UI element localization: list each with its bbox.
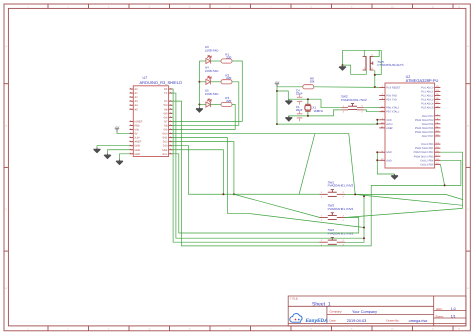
wire SW1 right to PB2 <box>345 152 462 199</box>
junction SW5 ground <box>342 64 344 66</box>
svg-text:2019-04-03: 2019-04-03 <box>347 319 366 323</box>
svg-text:PC4 ADC4: PC4 ADC4 <box>421 103 434 106</box>
svg-text:D12: D12 <box>163 141 168 144</box>
svg-text:RES: RES <box>135 124 141 127</box>
svg-text:PB7 XTAL2: PB7 XTAL2 <box>386 111 400 114</box>
junction xtal node B <box>307 115 309 117</box>
wire SW5 top left pin drop <box>363 50 365 56</box>
svg-text:L508-S4D: L508-S4D <box>205 69 219 73</box>
junction +5V rail bottom <box>276 123 278 125</box>
svg-text:Sheet:: Sheet: <box>435 314 443 318</box>
svg-text:+5V: +5V <box>275 81 280 84</box>
wire U3 cathode to R1 <box>211 60 222 62</box>
LED U5 L508-S4D <box>205 88 219 107</box>
power flag +5V reset <box>275 84 279 87</box>
ground LED rail <box>196 107 203 112</box>
junction SW4 net <box>363 227 365 229</box>
EasyEDA logo <box>290 314 328 325</box>
wire arduino GND3 <box>120 154 130 160</box>
svg-text:*D6: *D6 <box>163 116 168 119</box>
svg-text:Sheet_1: Sheet_1 <box>312 302 331 308</box>
svg-text:PC6 RESET: PC6 RESET <box>386 86 401 89</box>
svg-text:PC0 ADC0: PC0 ADC0 <box>421 86 434 89</box>
svg-text:L508-S4D: L508-S4D <box>205 92 219 96</box>
svg-text:ARDUINO_R3_SHIELD: ARDUINO_R3_SHIELD <box>140 80 183 85</box>
svg-text:PVA2OAH01.7NV2: PVA2OAH01.7NV2 <box>328 232 354 236</box>
wire R2 to D8 net <box>172 82 238 126</box>
svg-text:10k: 10k <box>310 79 315 83</box>
svg-text:L508-S4D: L508-S4D <box>205 48 219 52</box>
svg-text:SDA: SDA <box>162 149 168 152</box>
switch SW5 PTS645SL50-2LFS <box>363 53 404 70</box>
wire SW5 left leg to ground <box>342 50 344 65</box>
wire +5V rail vertical <box>276 87 278 124</box>
resistor R1 220 <box>221 53 232 64</box>
svg-text:AVCC: AVCC <box>386 123 393 126</box>
wire R3 to D9 net <box>172 105 235 130</box>
wire arduino GND1 <box>97 146 130 148</box>
wire D10 branch slant to SW1 left <box>299 134 315 195</box>
svg-text:DIG4 PD4: DIG4 PD4 <box>422 123 434 126</box>
wire D2 loop to PB4 <box>172 101 461 246</box>
junction LED rail U5 <box>198 104 200 106</box>
switch SW3 PVA2OAH01.7NV2 <box>320 204 354 222</box>
wire PB5 diagonal <box>440 164 444 185</box>
switch SW1 PVA2OAH01.7NV2 <box>320 180 354 198</box>
ground chip <box>391 174 398 179</box>
resistor R6 10k <box>303 76 315 88</box>
svg-text:PC5 ADC5: PC5 ADC5 <box>421 107 434 110</box>
capacitor C1 22pF <box>296 105 303 121</box>
wire SW5 top right pin drop <box>374 50 380 56</box>
svg-text:GND: GND <box>135 149 141 152</box>
junction SDA SW1 net <box>222 193 224 195</box>
svg-text:*D10: *D10 <box>162 133 168 136</box>
svg-text:D2: D2 <box>164 100 168 103</box>
svg-text:VDD: VDD <box>386 119 392 122</box>
svg-text:AREF: AREF <box>135 141 142 144</box>
svg-text:AREF: AREF <box>386 127 393 130</box>
wire xtal node A <box>288 98 321 100</box>
svg-text:+5V: +5V <box>115 126 120 129</box>
junction chip GND2 <box>376 159 378 161</box>
junction D12 D13 <box>233 193 235 195</box>
svg-text:GND: GND <box>135 153 141 156</box>
wire SDA down to SW1 net <box>172 150 223 195</box>
svg-text:PVA2OAH01.7NV2: PVA2OAH01.7NV2 <box>341 98 367 102</box>
wire R1 to D7 net <box>172 61 242 121</box>
wire D11 to SW4 right <box>172 138 364 228</box>
svg-text:5V: 5V <box>135 133 138 136</box>
wire D13 to SW1 left <box>172 146 319 195</box>
wire +5V to xtal node A <box>277 91 288 99</box>
wire SW5 top rail <box>343 49 382 51</box>
wire RX to SW4 left <box>172 89 319 242</box>
crystal X1 16MHz <box>305 99 324 116</box>
svg-text:GND: GND <box>135 145 141 148</box>
wire D10 to SW1 right slant <box>172 134 355 195</box>
wire chip GND <box>377 152 394 174</box>
wire SW5 to reset line <box>374 75 376 87</box>
svg-text:TX: TX <box>164 92 168 95</box>
wire node A to SW2 <box>321 99 341 108</box>
ground arduino GND1 <box>94 148 101 153</box>
svg-text:D7: D7 <box>164 120 168 123</box>
wire SW5 right leg <box>375 50 382 74</box>
ground SW5 <box>339 65 346 70</box>
svg-text:IOREF: IOREF <box>135 120 143 123</box>
svg-text:GND: GND <box>386 151 392 154</box>
svg-text:PD1 TXD: PD1 TXD <box>386 99 397 102</box>
LED U4 L508-S4D <box>205 66 219 85</box>
ground arduino GND2 <box>104 153 111 158</box>
svg-text:D13: D13 <box>163 145 168 148</box>
resistor R3 220 <box>221 96 232 107</box>
svg-text:D8: D8 <box>164 124 168 127</box>
ground xtal A <box>285 99 292 104</box>
svg-text:Your Company: Your Company <box>352 310 377 314</box>
junction SW4 vertical top <box>363 195 365 197</box>
junction xtal node A <box>307 98 309 100</box>
svg-text:ATMEGA328P-PU: ATMEGA328P-PU <box>406 78 439 83</box>
junction VDD <box>376 119 378 121</box>
wire SW4 right vertical <box>345 196 364 242</box>
wire xtal node B <box>288 115 333 117</box>
wire U5 anode <box>199 104 206 106</box>
ground xtal B <box>285 116 292 121</box>
junction SW5 to reset <box>374 86 376 88</box>
wire arduino GND2 <box>108 150 130 154</box>
wire U5 cathode to R3 <box>211 104 222 106</box>
wire PB2 vertical lower <box>462 200 464 209</box>
svg-text:PD0 RXD: PD0 RXD <box>386 95 397 98</box>
svg-text:PWM DIG5 PD5: PWM DIG5 PD5 <box>415 127 434 130</box>
svg-text:*D9: *D9 <box>163 129 168 132</box>
svg-text:D4: D4 <box>164 108 168 111</box>
resistor R2 220 <box>221 73 232 83</box>
svg-text:1.0: 1.0 <box>451 307 456 311</box>
svg-text:PB6 XTAL1: PB6 XTAL1 <box>386 107 400 110</box>
junction +5V C4 branch <box>276 90 278 92</box>
svg-text:PWM DIG11 PB3: PWM DIG11 PB3 <box>414 155 434 158</box>
junction AVCC <box>376 123 378 125</box>
LED U3 L508-S4D <box>205 45 219 64</box>
svg-text:PVA2OAH01.7NV2: PVA2OAH01.7NV2 <box>328 184 354 188</box>
svg-text:DIG7 PD7: DIG7 PD7 <box>422 135 434 138</box>
svg-text:VIN: VIN <box>135 129 139 132</box>
wire SCL loop to SW3 right <box>172 154 358 233</box>
svg-text:RX: RX <box>164 88 168 91</box>
svg-text:PWM DIG3 PD3: PWM DIG3 PD3 <box>415 119 434 122</box>
svg-text:Company:: Company: <box>330 310 343 314</box>
wire R6 to RESET pin <box>314 86 379 89</box>
junction chip GND1 <box>376 151 378 153</box>
wire TX to SW4 net <box>172 93 364 238</box>
wire U4 anode <box>199 81 206 83</box>
junction SW5 loop <box>374 74 376 76</box>
svg-text:3.3V: 3.3V <box>135 137 141 140</box>
svg-text:REV:: REV: <box>436 307 443 311</box>
svg-text:PVA2OAH01.7NV2: PVA2OAH01.7NV2 <box>328 207 354 211</box>
wire SW5 lower step <box>343 65 367 74</box>
svg-text:*D5: *D5 <box>163 112 168 115</box>
svg-text:DIG 8 PB0: DIG 8 PB0 <box>421 143 434 146</box>
switch SW2 PVA2OAH01.7NV2 <box>341 94 367 113</box>
wire U3 anode <box>199 60 206 62</box>
wire 5V rail to VDD AVCC <box>277 123 377 125</box>
svg-text:*D11: *D11 <box>162 137 168 140</box>
svg-text:PWM DIG10 PB2: PWM DIG10 PB2 <box>414 151 434 154</box>
wire diagonal SW3 right to right <box>345 208 462 217</box>
svg-text:TITLE:: TITLE: <box>290 297 299 301</box>
switch SW4 PVA2OAH01.7NV2 <box>320 228 354 246</box>
svg-text:16MHz: 16MHz <box>313 109 323 113</box>
svg-text:1/1: 1/1 <box>451 315 456 319</box>
svg-text:SCL: SCL <box>162 153 168 156</box>
svg-text:PC2 ADC2: PC2 ADC2 <box>421 95 434 98</box>
svg-text:DIG12 PB4: DIG12 PB4 <box>421 159 434 162</box>
svg-text:PWM DIG9 PB1: PWM DIG9 PB1 <box>415 147 434 150</box>
svg-text:DIG2 PD2: DIG2 PD2 <box>422 115 434 118</box>
svg-text:GND: GND <box>386 159 392 162</box>
svg-text:PC1 ADC1: PC1 ADC1 <box>421 90 434 93</box>
junction TX SW4 net <box>363 237 365 239</box>
svg-text:EasyEDA: EasyEDA <box>306 318 329 324</box>
ground arduino GND3 <box>116 159 123 164</box>
svg-text:DIG13 PB5: DIG13 PB5 <box>421 163 434 166</box>
power flag +5V arduino <box>115 129 119 132</box>
component U2 ATMEGA328P-PU <box>379 75 440 168</box>
svg-text:Drawn By:: Drawn By: <box>387 319 400 323</box>
wire LED ground rail <box>198 61 200 107</box>
svg-text:PC3 ADC3: PC3 ADC3 <box>421 99 434 102</box>
wire diagonal SW1 right to lower right <box>355 194 462 205</box>
junction PB5 net <box>444 184 446 186</box>
svg-text:*D3: *D3 <box>163 104 168 107</box>
junction LED rail U4 <box>198 81 200 83</box>
title block <box>288 296 466 326</box>
wire +5V to arduino 5V pin <box>117 132 130 134</box>
wire U4 cathode to R2 <box>211 81 222 83</box>
wire reset line R6 <box>277 86 303 88</box>
component U7 ARDUINO_R3_SHIELD <box>130 76 183 157</box>
svg-text:omega.rise: omega.rise <box>409 319 428 323</box>
wire SW2 to XTAL1 <box>364 107 379 109</box>
capacitor C4 22pF <box>296 88 303 104</box>
wire SW2 to XTAL2 <box>364 110 379 112</box>
svg-text:Date:: Date: <box>330 319 337 323</box>
wire D12 to SW3 left diagonal <box>172 142 319 218</box>
wire node B to SW2 <box>334 110 342 116</box>
junction SW1 right slant <box>354 193 356 195</box>
svg-text:PWM DIG6 PD6: PWM DIG6 PD6 <box>415 131 434 134</box>
